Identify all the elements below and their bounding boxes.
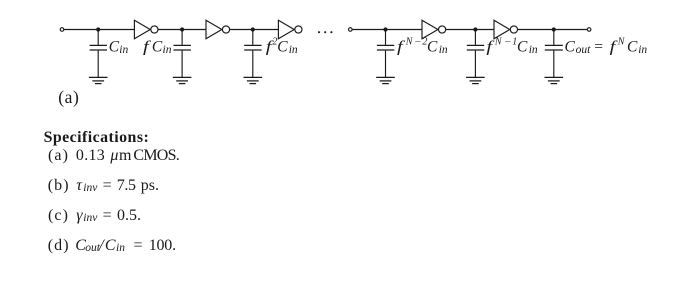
svg-text:in: in xyxy=(439,44,448,56)
svg-text:in: in xyxy=(529,44,538,56)
svg-text:C: C xyxy=(109,38,120,55)
capacitor C4 plates xyxy=(377,45,394,50)
capacitor C3 plates xyxy=(244,45,261,50)
capacitor C2 lower lead xyxy=(181,51,183,78)
subfigure label (a) xyxy=(0,89,683,111)
capacitor C5 lower lead xyxy=(474,51,476,78)
svg-text:out: out xyxy=(576,44,592,56)
item a xyxy=(0,148,683,170)
svg-text:N: N xyxy=(405,37,414,48)
inverter U4 xyxy=(422,20,446,38)
ground G4 xyxy=(376,77,395,83)
wire U5 to output xyxy=(518,29,588,31)
svg-text:−: − xyxy=(504,37,512,48)
capacitor C4 lower lead xyxy=(385,51,387,78)
capacitor C5 upper lead xyxy=(474,30,476,45)
capacitor C1 plates xyxy=(90,45,107,50)
node n4 junction dot xyxy=(383,27,387,31)
output terminal xyxy=(587,28,591,32)
capacitor C1 lower lead xyxy=(97,51,99,78)
capacitor C2 upper lead xyxy=(181,30,183,45)
svg-text:N: N xyxy=(494,37,503,48)
svg-text:C: C xyxy=(627,39,638,56)
svg-text:C: C xyxy=(565,39,576,56)
wire input to inverter U1 xyxy=(64,29,134,31)
ellipsis dots xyxy=(318,31,333,33)
capacitor C1 upper lead xyxy=(97,30,99,45)
node n6 junction dot xyxy=(552,27,556,31)
svg-text:C: C xyxy=(427,39,438,56)
ground G5 xyxy=(466,77,485,83)
svg-text:−: − xyxy=(414,37,422,48)
svg-text:in: in xyxy=(119,44,128,56)
svg-text:C: C xyxy=(517,39,528,56)
wire U4 to inverter U5 xyxy=(446,29,494,31)
terminal t2 open circle xyxy=(349,28,353,32)
capacitor C6 lower lead xyxy=(553,51,555,78)
node n2 junction dot xyxy=(180,27,184,31)
wire t2 to inverter U4 xyxy=(352,29,422,31)
input terminal xyxy=(60,28,64,32)
inverter U3 xyxy=(278,20,302,38)
node n3 junction dot xyxy=(251,27,255,31)
item b xyxy=(0,178,683,200)
capacitor C5 plates xyxy=(467,45,484,50)
svg-text:in: in xyxy=(163,44,172,56)
ground G2 xyxy=(173,77,192,83)
wire U1 to inverter U2 xyxy=(158,29,206,31)
node n1 junction dot xyxy=(96,27,100,31)
capacitor C3 upper lead xyxy=(252,30,254,45)
svg-text:in: in xyxy=(638,44,647,56)
svg-text:=: = xyxy=(594,39,603,56)
svg-text:C: C xyxy=(277,38,288,55)
node n5 junction dot xyxy=(473,27,477,31)
ground G3 xyxy=(244,77,263,83)
svg-text:f: f xyxy=(143,38,152,55)
ground G6 xyxy=(545,77,564,83)
inverter U5 xyxy=(494,20,518,38)
capacitor C4 upper lead xyxy=(385,30,387,45)
capacitor C3 lower lead xyxy=(252,51,254,78)
capacitor C6 plates xyxy=(545,45,563,50)
svg-text:C: C xyxy=(152,38,163,55)
capacitor C2 plates xyxy=(174,45,191,50)
item d xyxy=(0,238,683,260)
item c xyxy=(0,208,683,230)
heading Specifications xyxy=(0,130,683,152)
inverter U1 xyxy=(134,20,158,38)
svg-text:in: in xyxy=(289,44,298,56)
inverter U2 xyxy=(206,20,230,38)
ground G1 xyxy=(89,77,108,83)
svg-text:N: N xyxy=(617,37,626,48)
wire U2 to inverter U3 xyxy=(230,29,279,31)
capacitor C6 upper lead xyxy=(553,30,555,45)
svg-text:f: f xyxy=(397,38,406,55)
